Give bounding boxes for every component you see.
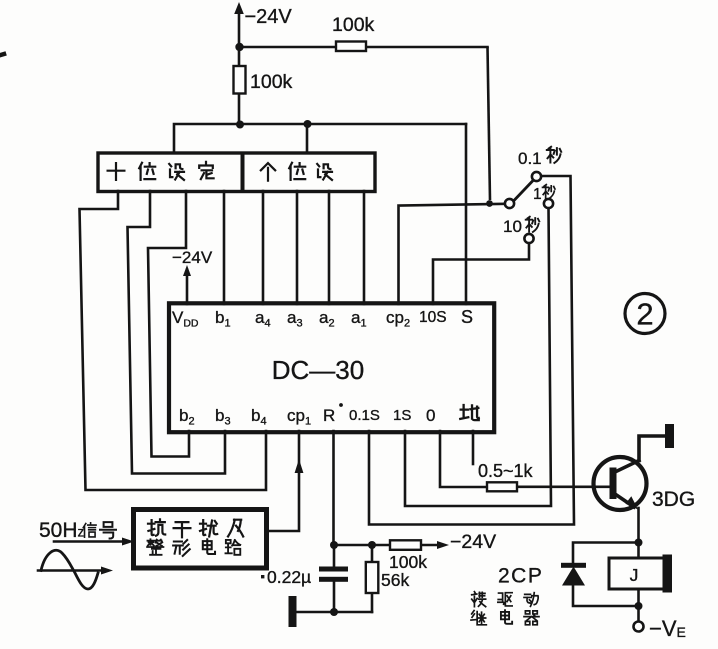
svg-text:1: 1 xyxy=(533,186,542,203)
svg-text:J: J xyxy=(630,565,639,585)
svg-text:0.5~1k: 0.5~1k xyxy=(478,461,534,481)
svg-text:−24V: −24V xyxy=(172,248,213,267)
svg-text:0.1S: 0.1S xyxy=(349,407,380,424)
svg-text:0.22µ: 0.22µ xyxy=(267,567,311,587)
svg-text:56k: 56k xyxy=(381,570,409,590)
svg-text:2: 2 xyxy=(636,297,653,332)
svg-text:0: 0 xyxy=(426,406,435,425)
svg-text:R: R xyxy=(323,406,335,425)
svg-text:2CP: 2CP xyxy=(498,565,543,588)
svg-text:100k: 100k xyxy=(389,552,427,572)
svg-text:0.1: 0.1 xyxy=(518,149,542,168)
svg-text:DC—30: DC—30 xyxy=(272,355,364,385)
svg-text:−24V: −24V xyxy=(450,531,496,553)
svg-text:10S: 10S xyxy=(419,309,447,326)
svg-text:−24V: −24V xyxy=(245,6,293,28)
svg-text:1S: 1S xyxy=(393,407,411,424)
svg-text:3DG: 3DG xyxy=(652,488,695,511)
svg-text:10: 10 xyxy=(503,217,522,236)
svg-text:100k: 100k xyxy=(332,14,375,36)
svg-text:S: S xyxy=(461,307,473,327)
svg-text:100k: 100k xyxy=(250,71,293,93)
